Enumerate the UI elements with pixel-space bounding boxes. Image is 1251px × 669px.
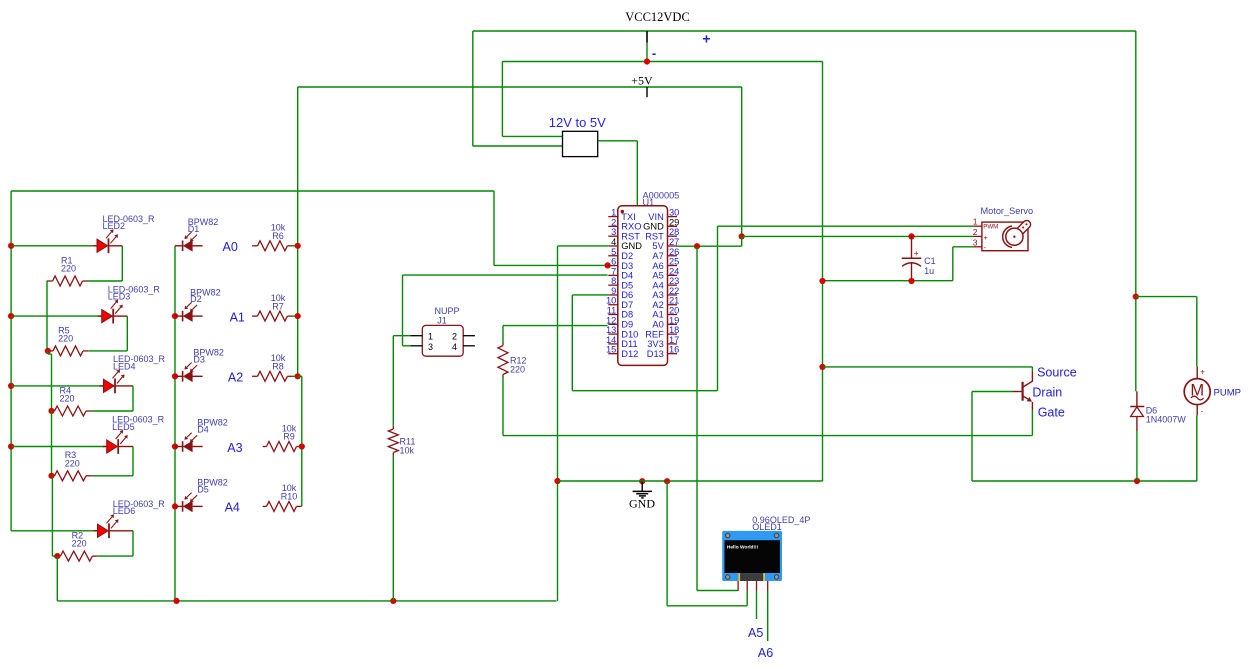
svg-text:GND: GND — [629, 497, 655, 511]
wire OLED pin4 A6 — [767, 591, 769, 641]
svg-text:1u: 1u — [924, 266, 934, 276]
resistor R6 10k — [252, 241, 292, 251]
junction — [1134, 478, 1140, 484]
resistor R9 10k — [263, 442, 302, 452]
wire D3 net riser — [493, 191, 495, 265]
svg-text:1: 1 — [428, 332, 433, 342]
servo M1 Motor_Servo — [982, 222, 1028, 252]
svg-text:A5: A5 — [748, 626, 763, 640]
wire D3 net horizontal — [494, 264, 608, 266]
svg-text:2: 2 — [611, 217, 616, 227]
J1 pin stubs — [411, 335, 423, 337]
svg-text:C1: C1 — [924, 256, 936, 266]
wire R11 drop top — [392, 336, 394, 426]
display OLED1 label — [752, 515, 810, 532]
svg-text:220: 220 — [58, 333, 73, 343]
svg-text:12V to 5V: 12V to 5V — [549, 115, 606, 130]
wire servo PWM feed — [718, 225, 974, 227]
svg-text:D5: D5 — [621, 280, 633, 290]
wire LED4 anode — [11, 385, 103, 387]
wire R8-R9 jog — [298, 375, 302, 377]
wire D4 net drop — [402, 275, 404, 346]
junction — [819, 278, 825, 284]
resistor R12 220 — [498, 343, 508, 377]
junction — [8, 243, 14, 249]
junction — [295, 373, 301, 379]
wire R2 to GND rail — [56, 556, 58, 601]
junction — [605, 262, 611, 268]
svg-text:+5V: +5V — [631, 74, 653, 88]
svg-text:10k: 10k — [400, 446, 415, 456]
svg-text:9: 9 — [611, 286, 616, 296]
junction — [172, 373, 178, 379]
resistor R9 label — [282, 423, 297, 441]
junction — [908, 278, 914, 284]
svg-text:D4: D4 — [197, 425, 209, 435]
wire LED anode column — [10, 191, 12, 531]
junction — [390, 598, 396, 604]
photodiode D2 BPW82 — [175, 302, 203, 321]
svg-text:26: 26 — [669, 247, 679, 257]
svg-text:7: 7 — [611, 266, 616, 276]
wire R12 top lead — [502, 326, 504, 343]
photodiode D3 label — [193, 348, 224, 365]
junction — [554, 478, 560, 484]
wire OLED pin1 — [697, 590, 738, 592]
svg-text:24: 24 — [669, 266, 679, 276]
wire GND rail — [558, 480, 823, 482]
U1 pin names — [621, 212, 664, 359]
svg-text:25: 25 — [669, 257, 679, 267]
diode D6 label — [1146, 405, 1187, 424]
svg-text:3V3: 3V3 — [647, 339, 664, 349]
svg-text:17: 17 — [669, 335, 679, 345]
wire +5V rail — [298, 86, 742, 88]
junction — [295, 243, 301, 249]
wire LED5 to R3 — [92, 475, 133, 477]
svg-text:3: 3 — [973, 237, 978, 247]
resistor R3 220 — [52, 471, 92, 481]
resistor R8 label — [271, 353, 286, 371]
wire D9 to R12 — [503, 325, 608, 327]
svg-text:28: 28 — [669, 227, 679, 237]
wire U1 5V pin wire — [677, 245, 742, 247]
svg-text:+: + — [984, 233, 989, 242]
svg-text:A5: A5 — [652, 271, 663, 281]
svg-text:D5: D5 — [197, 485, 209, 495]
svg-text:A4: A4 — [652, 280, 663, 290]
LED LED2 — [93, 229, 122, 253]
wire J1 pin1 to R11 — [393, 335, 410, 337]
junction — [644, 58, 650, 64]
junction — [173, 598, 179, 604]
resistor R4 label — [60, 385, 75, 403]
wire D6 to servo left — [572, 294, 608, 296]
LED D3 label — [108, 284, 161, 301]
junction — [295, 313, 301, 319]
svg-text:A0: A0 — [652, 320, 663, 330]
LED LED4 — [100, 369, 134, 393]
svg-text:Source: Source — [1037, 365, 1077, 379]
resistor R2 220 — [57, 551, 97, 561]
wire pump feed — [1136, 296, 1197, 298]
junction — [694, 243, 700, 249]
svg-text:220: 220 — [65, 458, 80, 468]
svg-text:A6: A6 — [758, 646, 773, 660]
svg-text:VIN: VIN — [648, 212, 664, 222]
wire LED5 cathode drop — [132, 447, 134, 476]
svg-text:+: + — [914, 248, 919, 258]
wire 10k pullup column — [301, 376, 303, 506]
LED D2 label — [103, 214, 156, 231]
resistor R6 label — [271, 223, 286, 241]
wire LED4 cathode drop — [132, 386, 134, 411]
wire LED2 cathode drop — [121, 246, 123, 281]
svg-text:LED4: LED4 — [113, 361, 136, 371]
svg-text:13: 13 — [606, 325, 616, 335]
svg-text:A1: A1 — [230, 310, 245, 324]
svg-text:5: 5 — [611, 247, 616, 257]
svg-text:D7: D7 — [621, 300, 633, 310]
svg-text:OLED1: OLED1 — [752, 522, 782, 532]
wire converter in2 — [473, 145, 563, 147]
wire OLED pin2 drop — [746, 591, 748, 606]
wire R12 bottom drop — [502, 377, 504, 436]
svg-text:A0: A0 — [223, 240, 238, 254]
wire +5V right drop — [741, 87, 743, 236]
junction — [172, 443, 178, 449]
svg-text:D2: D2 — [621, 251, 633, 261]
svg-text:+: + — [702, 31, 710, 47]
junction — [8, 313, 14, 319]
svg-text:2: 2 — [452, 332, 457, 342]
junction — [739, 233, 745, 239]
resistor R7 10k — [252, 311, 292, 321]
svg-text:LED3: LED3 — [108, 292, 131, 302]
ground — [641, 481, 643, 491]
U1 pin stubs — [608, 217, 677, 354]
wire photodiode anode column — [174, 246, 176, 601]
svg-text:A4: A4 — [225, 501, 240, 515]
svg-text:Hello World!!!: Hello World!!! — [727, 545, 759, 551]
wire LED6 anode — [11, 530, 97, 532]
IC U1 label — [643, 190, 680, 207]
svg-text:1N4007W: 1N4007W — [1146, 414, 1187, 424]
svg-text:TXI: TXI — [621, 212, 635, 222]
svg-text:D10: D10 — [621, 329, 638, 339]
wire VCC- rail — [502, 61, 822, 63]
junction — [908, 233, 914, 239]
svg-text:18: 18 — [669, 325, 679, 335]
converter module 12V to 5V — [563, 131, 598, 156]
wire VCC- main drop — [822, 62, 824, 482]
wire R6 tail — [292, 245, 298, 247]
wire Gate net — [503, 435, 1032, 437]
svg-text:1: 1 — [973, 217, 978, 227]
wire converter out drop to U1 — [636, 141, 638, 206]
svg-text:D6: D6 — [621, 290, 633, 300]
display OLED1 0.96OLED_4P — [722, 531, 782, 591]
svg-text:5V: 5V — [652, 241, 664, 251]
servo pin stubs — [973, 225, 982, 227]
svg-text:12: 12 — [606, 315, 616, 325]
wire R11 to GND rail — [392, 456, 394, 601]
U1 pin1 marker — [621, 210, 624, 213]
wire LED2 anode — [11, 245, 97, 247]
svg-text:A2: A2 — [228, 371, 243, 385]
svg-text:29: 29 — [669, 217, 679, 227]
svg-text:220: 220 — [72, 539, 87, 549]
svg-text:D9: D9 — [621, 320, 633, 330]
wire VCC+ left drop — [472, 31, 474, 146]
capacitor C1 label — [924, 256, 936, 276]
svg-text:RST: RST — [645, 231, 664, 241]
wire ladder jog1 — [46, 350, 49, 352]
wire LED3 cathode drop — [126, 316, 128, 351]
svg-text:21: 21 — [669, 296, 679, 306]
svg-text:Drain: Drain — [1032, 385, 1062, 399]
svg-text:220: 220 — [61, 264, 76, 274]
junction — [172, 313, 178, 319]
svg-text:30: 30 — [669, 208, 679, 218]
photodiode D1 BPW82 — [175, 232, 203, 251]
LED D6 label — [113, 499, 166, 516]
svg-text:3: 3 — [611, 227, 616, 237]
wire LED3 anode — [11, 315, 102, 317]
LED LED3 — [98, 300, 128, 324]
svg-text:23: 23 — [669, 276, 679, 286]
wire R7 tail — [292, 315, 298, 317]
wire Drain drop — [971, 392, 973, 482]
junction — [48, 408, 54, 414]
svg-text:220: 220 — [510, 365, 525, 375]
resistor R8 10k — [252, 371, 292, 381]
wire converter in1 — [502, 135, 562, 137]
LED D5 label — [112, 415, 165, 432]
junction — [54, 553, 60, 559]
junction — [45, 348, 51, 354]
motor PUMP — [1184, 366, 1210, 415]
wire VCC+ rail — [473, 30, 1136, 32]
svg-text:PWM: PWM — [983, 224, 998, 231]
svg-text:VCC12VDC: VCC12VDC — [625, 10, 690, 24]
wire jog to 5V pin — [741, 236, 743, 246]
svg-text:D3: D3 — [193, 354, 205, 364]
svg-text:10: 10 — [606, 296, 616, 306]
resistor R11 10k — [388, 426, 398, 456]
svg-text:15: 15 — [606, 345, 616, 355]
wire LED2 to R1 — [88, 280, 123, 282]
svg-text:PUMP: PUMP — [1214, 387, 1241, 398]
svg-text:27: 27 — [669, 237, 679, 247]
wire Source net — [823, 366, 1033, 368]
photodiode D4 BPW82 — [175, 433, 203, 452]
photodiode D1 label — [188, 217, 219, 234]
connector J1 NUPP — [422, 325, 463, 356]
svg-text:D1: D1 — [188, 224, 200, 234]
svg-text:A3: A3 — [227, 441, 242, 455]
svg-text:GND: GND — [621, 241, 642, 251]
resistor R1 220 — [47, 276, 88, 286]
photodiode D3 BPW82 — [175, 363, 203, 382]
wire VCC- left drop — [501, 62, 503, 137]
svg-text:LED6: LED6 — [113, 506, 136, 516]
wire D6 drop — [571, 295, 573, 391]
wire PUMP minus — [1196, 416, 1198, 482]
wire D6 bottom — [1136, 431, 1138, 481]
wire R8 tail — [292, 375, 298, 377]
wire LED4 to R4 — [92, 410, 133, 412]
resistor R4 220 — [52, 406, 92, 416]
wire OLED pin2 riser — [666, 481, 668, 606]
battery VCC12VDC terminal — [646, 31, 648, 43]
wire LED5 anode — [11, 446, 107, 448]
junction — [8, 443, 14, 449]
wire servo plus feed — [742, 235, 974, 237]
wire LED anode rail — [11, 190, 494, 192]
junction — [48, 473, 54, 479]
transistor Q1 — [1013, 367, 1033, 436]
svg-text:22: 22 — [669, 286, 679, 296]
svg-text:D4: D4 — [621, 271, 633, 281]
resistor R5 220 — [48, 346, 88, 356]
svg-text:Motor_Servo: Motor_Servo — [981, 206, 1034, 216]
photodiode D4 label — [197, 418, 228, 435]
wire Drain rail — [972, 480, 1197, 482]
diode D6 1N4007W — [1130, 391, 1144, 431]
+5V flag stem — [646, 87, 648, 97]
op-amp U1 body — [618, 206, 668, 366]
wire servo minus lead — [953, 246, 974, 248]
svg-text:2: 2 — [973, 227, 978, 237]
svg-text:A2: A2 — [652, 300, 663, 310]
svg-text:REF: REF — [645, 329, 664, 339]
connector J1 label — [434, 306, 459, 326]
svg-text:11: 11 — [607, 306, 617, 316]
svg-text:1: 1 — [611, 208, 616, 218]
svg-text:-: - — [652, 46, 656, 61]
svg-text:Gate: Gate — [1038, 406, 1065, 420]
wire LED6 to R2 — [97, 555, 133, 557]
svg-text:6: 6 — [611, 257, 616, 267]
resistor R10 label — [281, 483, 298, 501]
svg-text:NUPP: NUPP — [434, 306, 459, 316]
resistor R7 label — [271, 293, 286, 311]
wire servo minus run — [823, 280, 953, 282]
wire D4 net horizontal — [403, 274, 608, 276]
resistor R11 label — [400, 437, 416, 456]
svg-text:D3: D3 — [621, 261, 633, 271]
LED LED5 — [103, 430, 133, 454]
wire LED6 cathode drop — [132, 531, 134, 556]
wire D6 under chip — [572, 390, 717, 392]
svg-text:A6: A6 — [652, 261, 663, 271]
svg-text:A3: A3 — [652, 290, 663, 300]
wire +5V left drop — [297, 87, 299, 376]
wire ladder R4-R3 — [51, 411, 53, 476]
resistor R5 label — [58, 325, 73, 343]
wire 5V drop to OLED — [696, 246, 698, 590]
wire battery minus drop — [646, 43, 648, 62]
wire D6 riser — [717, 226, 719, 391]
svg-text:D11: D11 — [621, 339, 637, 349]
svg-text:R7: R7 — [272, 301, 284, 311]
svg-text:A1: A1 — [652, 310, 663, 320]
wire U1 GND pin4 — [558, 245, 609, 247]
junction — [172, 503, 178, 509]
svg-text:D13: D13 — [647, 349, 664, 359]
junction — [299, 443, 305, 449]
svg-text:A7: A7 — [652, 251, 663, 261]
resistor R3 label — [65, 450, 80, 468]
svg-text:RXO: RXO — [621, 222, 641, 232]
U1 pin numbers — [606, 208, 679, 355]
photodiode D2 label — [190, 287, 221, 304]
svg-text:4: 4 — [452, 342, 457, 352]
svg-text:LED5: LED5 — [112, 422, 135, 432]
photodiode D5 BPW82 — [175, 493, 203, 512]
svg-text:LED2: LED2 — [103, 221, 126, 231]
resistor R12 label — [510, 356, 527, 375]
svg-text:D12: D12 — [621, 349, 638, 359]
wire ladder R5-R4 — [47, 351, 49, 354]
junction — [1133, 294, 1139, 300]
svg-text:J1: J1 — [437, 316, 447, 326]
wire LED3 to R5 — [88, 350, 127, 352]
svg-text:14: 14 — [606, 335, 616, 345]
svg-text:D8: D8 — [621, 310, 633, 320]
svg-text:R8: R8 — [272, 362, 284, 372]
wire servo minus drop — [952, 247, 954, 281]
wire converter out — [598, 140, 638, 142]
resistor R10 10k — [263, 501, 302, 511]
wire to J1 pin3 — [403, 345, 411, 347]
junction — [639, 478, 645, 484]
wire ladder jog2 — [52, 555, 57, 557]
wire bottom GND rail — [57, 600, 556, 602]
svg-text:19: 19 — [669, 315, 679, 325]
wire GND column — [557, 246, 559, 601]
wire pump feed drop — [1196, 297, 1198, 367]
junction — [819, 364, 825, 370]
svg-text:8: 8 — [611, 276, 616, 286]
svg-text:4: 4 — [611, 237, 616, 247]
svg-text:16: 16 — [669, 345, 679, 355]
photodiode D5 label — [197, 478, 228, 495]
wire VCC+ right drop — [1135, 31, 1137, 391]
svg-text:+: + — [1200, 368, 1205, 377]
svg-text:RST: RST — [621, 231, 640, 241]
resistor R2 label — [72, 531, 87, 549]
capacitor C1 1u — [902, 236, 922, 281]
svg-text:GND: GND — [643, 222, 664, 232]
wire OLED pin3 A5 — [756, 591, 758, 619]
wire ladder R3-R2 — [51, 476, 53, 556]
wire OLED pin2 run — [667, 605, 747, 607]
junction — [8, 383, 14, 389]
svg-text:220: 220 — [60, 394, 75, 404]
svg-text:20: 20 — [669, 306, 679, 316]
LED LED6 — [94, 514, 134, 538]
svg-text:3: 3 — [428, 342, 433, 352]
svg-text:-: - — [1201, 409, 1204, 416]
junction — [664, 478, 670, 484]
svg-text:R6: R6 — [272, 231, 284, 241]
LED D4 label — [113, 354, 166, 371]
resistor R1 label — [61, 255, 76, 273]
wire ladder R1-R5 — [46, 281, 48, 351]
wire Drain base — [972, 391, 1013, 393]
